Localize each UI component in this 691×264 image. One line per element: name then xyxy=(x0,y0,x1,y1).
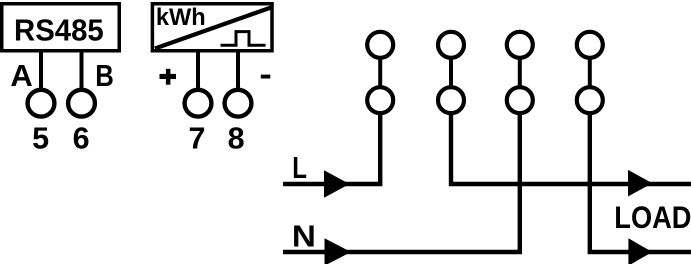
svg-text:A: A xyxy=(10,58,32,93)
svg-text:7: 7 xyxy=(189,122,206,156)
svg-text:8: 8 xyxy=(228,122,245,156)
svg-text:5: 5 xyxy=(32,122,49,156)
svg-text:N: N xyxy=(292,219,316,254)
svg-text:B: B xyxy=(95,58,114,93)
svg-text:RS485: RS485 xyxy=(14,14,104,48)
svg-text:LOAD: LOAD xyxy=(614,199,691,235)
svg-text:6: 6 xyxy=(73,122,90,156)
svg-text:L: L xyxy=(292,150,307,185)
svg-text:kWh: kWh xyxy=(156,4,206,31)
